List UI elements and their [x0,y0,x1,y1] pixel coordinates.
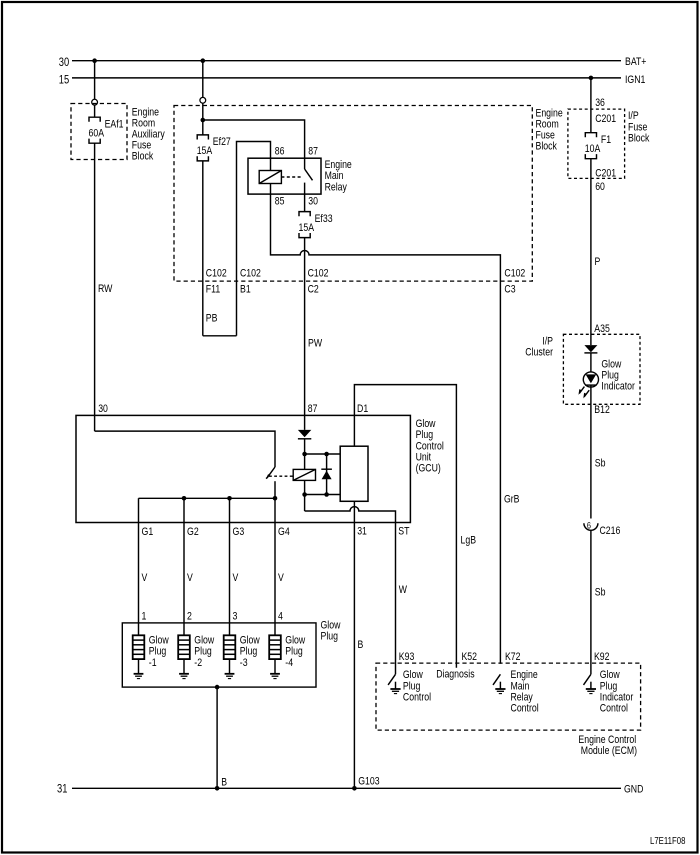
svg-text:-4: -4 [285,657,293,669]
label Glow Plug (box) [321,619,342,642]
svg-text:15A: 15A [197,145,213,157]
svg-text:K93: K93 [399,651,415,663]
svg-text:Plug: Plug [321,631,339,643]
relay coil [259,158,281,194]
svg-text:G3: G3 [233,526,245,538]
svg-text:31: 31 [357,526,367,538]
svg-text:ST: ST [398,526,409,538]
connector circle Ef27 feed [200,97,206,103]
svg-text:87: 87 [308,146,318,158]
label I/P Fuse Block [628,110,650,144]
svg-text:G4: G4 [278,526,290,538]
svg-text:F1: F1 [601,134,611,146]
svg-text:Ef27: Ef27 [213,136,231,148]
svg-text:B12: B12 [594,404,610,416]
svg-text:EAf1: EAf1 [105,118,124,130]
wire Sb: C216 to ECM K92 [591,530,606,674]
svg-text:Ef33: Ef33 [315,213,333,225]
svg-text:V: V [278,572,284,584]
label Engine Room Auxiliary Fuse Block [132,106,165,162]
svg-text:LgB: LgB [461,535,477,547]
wire pin 85 to C102 C3 (GrB) with hop over C2 [271,194,501,664]
dashed box I/P Cluster [563,334,640,404]
svg-text:Diagnosis: Diagnosis [436,669,475,681]
GCU internal bottom link [305,494,341,496]
dashed box Engine Room Fuse Block [174,106,532,282]
svg-text:(GCU): (GCU) [416,463,441,475]
svg-text:15: 15 [59,72,70,86]
svg-text:C102: C102 [504,267,525,279]
diode on GCU 87 input [298,430,311,470]
svg-text:A35: A35 [594,323,610,335]
svg-text:Block: Block [132,150,154,162]
svg-text:C102: C102 [206,267,227,279]
svg-text:1: 1 [142,610,147,622]
wire rail30 down to fuse block [202,61,204,98]
svg-text:PB: PB [206,312,218,324]
glow plug -1 element [133,635,170,679]
wire GCU pin 31 to ground rail (B) [354,501,363,788]
svg-text:BAT+: BAT+ [625,56,646,68]
connector C216 [584,520,621,537]
diode in I/P cluster [584,345,597,372]
label Engine Main Relay [325,159,352,193]
svg-text:IGN1: IGN1 [625,74,645,86]
svg-text:10A: 10A [585,143,601,155]
label Engine Main Relay Control (K72) [511,669,539,714]
wire G3 to glow plug 3 (V) [230,498,239,635]
svg-text:K72: K72 [505,651,521,663]
wire IGN1 to F1 [591,78,605,133]
wire G1 to glow plug 1 (V) [139,498,148,635]
wire to relay pin 87 [203,120,305,158]
svg-text:G103: G103 [358,775,379,787]
svg-text:F11: F11 [206,283,220,295]
svg-text:V: V [142,572,148,584]
dashed box I/P Fuse Block [568,109,625,178]
wire rail30 to EAf1 fuse [94,61,96,100]
svg-text:15A: 15A [299,222,315,234]
GCU relay coil [293,469,315,511]
svg-text:L7E11F08: L7E11F08 [650,836,686,847]
svg-text:K92: K92 [594,651,610,663]
svg-text:G2: G2 [187,526,199,538]
fuse Ef27 (15A) [197,135,231,161]
GCU switch lower contact to G bus [274,481,276,498]
svg-text:87: 87 [308,403,318,415]
svg-text:Relay: Relay [325,181,348,193]
svg-text:3: 3 [233,610,238,622]
svg-text:C201: C201 [595,113,616,125]
svg-text:Sb: Sb [595,457,606,469]
wire rail 15 (IGN1) [59,72,646,86]
svg-text:GND: GND [624,784,643,796]
fuse EAf1 (60A) [89,117,124,143]
svg-text:W: W [399,584,408,596]
svg-text:B: B [221,776,227,788]
relay coil-switch dashed link [281,176,303,178]
glow plug -4 element [269,635,306,679]
wire glow plug common to rail 31 (B) [215,687,227,791]
box Glow Plug Control Unit (GCU) [76,415,410,522]
svg-text:Sb: Sb [595,587,606,599]
connector C102/B1 labels [240,267,261,295]
svg-text:GrB: GrB [504,493,520,505]
fuse F1 (10A) [585,133,611,159]
wire D1 diagnosis to K52 (LgB) [354,385,476,668]
GCU internal 30 feed to switch [95,431,275,467]
GCU coil return to ST with hop over 31 [305,507,396,523]
svg-text:4: 4 [278,610,283,622]
wire Sb: cluster to C216 [591,404,606,518]
svg-text:60A: 60A [89,128,105,140]
connector circle EAf1 block [92,99,98,105]
svg-text:30: 30 [98,403,108,415]
svg-text:D1: D1 [357,403,368,415]
connector C102/C3 labels [504,267,525,295]
ECM switch-to-ground at K92 [584,674,597,693]
svg-text:-3: -3 [240,657,248,669]
svg-text:V: V [233,572,239,584]
svg-text:Control: Control [403,691,431,703]
svg-text:Indicator: Indicator [601,381,635,393]
wire PW: Ef33 to GCU pin 87 [305,238,323,430]
label GCU [416,418,444,474]
wire RW: EAf1 to GCU pin 30 [95,143,113,431]
svg-text:B1: B1 [240,283,251,295]
GCU switch blade [266,467,275,479]
svg-text:30: 30 [59,55,70,69]
relay box Engine Main Relay [248,158,321,194]
node G103 ground point [352,775,380,790]
svg-text:Control: Control [600,703,628,715]
node junction feed to relay 87 [201,118,206,123]
svg-text:-1: -1 [149,657,157,669]
label Glow Plug Indicator [601,358,635,392]
svg-text:6: 6 [587,520,591,531]
svg-text:RW: RW [98,283,113,295]
dashed box Engine Control Module (ECM) [376,663,641,730]
GCU internal top link [305,453,341,455]
svg-text:PW: PW [308,337,322,349]
svg-text:V: V [187,572,193,584]
svg-text:C3: C3 [504,283,515,295]
svg-text:G1: G1 [142,526,154,538]
wire pin 86 up-over-down to C102 B1 [237,142,271,336]
svg-text:30: 30 [308,195,318,207]
svg-text:C216: C216 [600,525,621,537]
GCU switch dashed link to coil [269,475,293,477]
svg-text:C102: C102 [308,267,329,279]
connector C102/F11 labels [206,267,227,295]
node glow plug common junction [215,685,220,690]
glow plug -3 element [224,635,261,679]
svg-text:C2: C2 [308,283,319,295]
GCU flyback diode [321,454,332,495]
svg-text:B: B [358,639,364,651]
wire G2 to glow plug 2 (V) [184,498,193,635]
GCU glow output bus [139,497,276,499]
label Engine Control Module (ECM) [578,734,637,757]
svg-text:P: P [595,256,601,268]
glow plug -2 element [178,635,215,679]
wire pin 30 to Ef33 [304,194,306,212]
svg-text:-2: -2 [194,657,202,669]
ECM switch-to-ground at K93 [388,674,401,693]
label Glow Plug Control (K93) [403,669,431,703]
ECM switch-to-ground at K72 [493,674,506,693]
node junction on rail 30 (EAf1 branch) [92,58,97,63]
wire rail 31 (GND) [57,781,643,795]
wire ST to ECM K93 (W) [396,523,408,675]
svg-text:C201: C201 [595,168,616,180]
box Glow Plug assembly [122,623,316,687]
svg-text:C102: C102 [240,267,261,279]
label I/P Cluster [525,336,553,359]
fuse Ef33 (15A) [299,212,333,238]
svg-text:Module (ECM): Module (ECM) [581,745,638,757]
svg-text:60: 60 [595,181,605,193]
connector C102/C2 labels [308,267,329,295]
label Engine Room Fuse Block [536,108,563,153]
svg-text:36: 36 [595,97,605,109]
wire G4 to glow plug 4 (V) [275,498,284,635]
GCU driver block [340,446,368,501]
svg-text:85: 85 [275,195,285,207]
svg-text:K52: K52 [462,651,478,663]
node junction on rail 15 (IGN1 to F1) [589,76,594,81]
svg-text:86: 86 [275,146,285,158]
dashed box Engine Room Auxiliary Fuse Block [71,104,127,160]
svg-text:Block: Block [628,132,650,144]
svg-text:Block: Block [536,141,558,153]
svg-text:31: 31 [57,781,68,795]
wire P: F1 to I/P cluster [591,159,600,345]
wire Ef27 to C102 F11 [202,161,204,336]
wire rail 30 (BAT+) [59,55,647,69]
svg-text:Cluster: Cluster [525,347,553,359]
svg-text:2: 2 [187,610,192,622]
svg-text:Control: Control [511,703,539,715]
wire PB U-turn joining F11 and B1 [203,335,237,337]
node junction on rail 30 (Ef27 branch) [201,58,206,63]
LED glow plug indicator [579,372,599,404]
label Glow Plug Indicator Control (K92) [600,669,634,714]
relay switch (pin 87 to 30) [305,158,313,194]
